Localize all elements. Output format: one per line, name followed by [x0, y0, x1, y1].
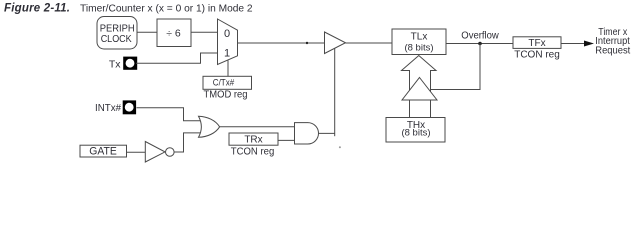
wire buffer to TLx	[346, 42, 393, 44]
Tx pin	[123, 57, 137, 70]
svg-text:÷ 6: ÷ 6	[166, 28, 181, 40]
wire TLx to TFx	[446, 43, 513, 45]
svg-text:TLx: TLx	[411, 32, 428, 43]
reload block arrow from THx to TLx	[402, 56, 437, 118]
TLx box	[392, 29, 446, 55]
title: Figure 2-11. Timer/Counter x (x = 0 or 1) in Mode 2	[4, 2, 253, 14]
buffer (clock gate triangle)	[325, 32, 346, 54]
TRx box	[229, 133, 278, 146]
wire TRx to AND gate	[278, 139, 295, 141]
svg-text:(8 bits): (8 bits)	[401, 128, 430, 139]
wire mux select to C/Tx# box	[227, 60, 229, 77]
PERIPH CLOCK block	[97, 17, 137, 50]
arrowhead	[584, 41, 594, 47]
wire OR gate to AND gate	[220, 126, 295, 128]
svg-text:TCON reg: TCON reg	[231, 146, 275, 157]
svg-text:C/Tx#: C/Tx#	[213, 78, 235, 89]
wire GATE to inverter	[127, 151, 146, 153]
divide-by-6 block	[157, 19, 191, 47]
THx box	[386, 118, 445, 143]
mux (trapezoid)	[218, 19, 238, 65]
svg-text:INTx#: INTx#	[95, 102, 121, 114]
wire Tx pin to mux input 1	[136, 53, 218, 63]
wire inverter to OR gate	[174, 133, 202, 152]
Timer x Interrupt Request label	[595, 27, 630, 57]
reload trigger triangle	[402, 78, 437, 101]
svg-text:TRx: TRx	[244, 135, 262, 146]
stray speck	[339, 146, 341, 148]
wire AND gate output to buffer control	[319, 132, 335, 134]
OR gate	[199, 116, 220, 137]
wire divide-by-6 to mux input 0	[191, 31, 218, 33]
svg-text:GATE: GATE	[89, 145, 117, 157]
svg-text:Timer/Counter x (x = 0 or 1) i: Timer/Counter x (x = 0 or 1) in Mode 2	[80, 3, 253, 14]
svg-text:CLOCK: CLOCK	[101, 33, 132, 45]
svg-text:Request: Request	[595, 45, 630, 56]
svg-text:(8 bits): (8 bits)	[404, 42, 433, 53]
svg-text:Figure 2-11.: Figure 2-11.	[4, 2, 70, 14]
TFx box	[513, 37, 561, 49]
GATE box	[80, 145, 127, 157]
AND gate	[295, 123, 319, 144]
junction dot overflow branch	[478, 42, 482, 46]
svg-text:TCON reg: TCON reg	[514, 50, 560, 61]
wire PERIPH CLOCK to divide-by-6	[137, 31, 157, 33]
svg-text:0: 0	[224, 28, 230, 40]
wire TFx to interrupt arrow	[561, 43, 585, 45]
svg-text:1: 1	[224, 48, 230, 60]
wire INTx# pin to OR gate	[137, 108, 203, 121]
inverter (NOT gate)	[145, 142, 174, 163]
INTx# pin	[123, 100, 136, 114]
junction dot on mux output wire	[306, 42, 308, 44]
C/Tx# box	[203, 76, 252, 89]
wire mux output to buffer	[238, 42, 325, 44]
svg-text:Tx: Tx	[109, 59, 121, 71]
svg-text:Overflow: Overflow	[461, 31, 499, 42]
wire overflow branch to reload trigger	[429, 44, 480, 90]
svg-text:TFx: TFx	[528, 38, 545, 49]
svg-text:TMOD reg: TMOD reg	[204, 89, 248, 100]
